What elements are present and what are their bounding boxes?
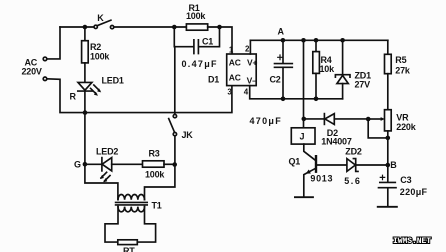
wire JK to R3 node to T1 right — [145, 136, 175, 200]
bridge rectifier D1 — [227, 54, 257, 86]
svg-text:C3: C3 — [400, 175, 411, 185]
zener ZD2 labels — [344, 146, 362, 186]
ground C3 — [378, 206, 397, 208]
transformer T1 core — [116, 202, 148, 205]
resistor RT — [118, 240, 138, 245]
svg-text:0.47μF: 0.47μF — [182, 59, 218, 69]
svg-text:ZD2: ZD2 — [345, 146, 362, 156]
capacitor C1 — [194, 27, 220, 54]
switch JK — [169, 114, 177, 135]
node dot C2 top — [281, 38, 286, 43]
resistor R2 label — [90, 42, 110, 62]
node dot R4 top — [314, 38, 319, 43]
svg-text:5.6: 5.6 — [344, 176, 361, 186]
resistor R3 label — [145, 148, 165, 179]
zener diode ZD1 — [335, 40, 350, 99]
svg-text:T1: T1 — [152, 200, 162, 210]
node dot VR bottom — [386, 136, 391, 141]
wire R1 to bridge pin 1 — [208, 27, 232, 54]
svg-text:J: J — [300, 131, 305, 141]
resistor R1 label — [186, 3, 206, 21]
capacitor C3 — [379, 175, 397, 206]
svg-text:AC: AC — [229, 72, 241, 82]
resistor R1 — [186, 24, 207, 30]
svg-text:LED2: LED2 — [96, 146, 118, 156]
capacitor C3 labels — [400, 175, 428, 197]
svg-text:R: R — [70, 91, 77, 101]
node dot J branch top — [301, 38, 306, 43]
svg-text:220μF: 220μF — [400, 187, 428, 197]
svg-text:10k: 10k — [320, 64, 336, 74]
node dot C2 bottom — [281, 97, 286, 102]
svg-text:27V: 27V — [355, 80, 371, 90]
wire RT to T1 secondary right — [137, 207, 155, 243]
rail node A wire — [250, 39, 387, 41]
svg-text:RT: RT — [123, 246, 135, 252]
wire top rail K to R1 — [114, 26, 187, 28]
svg-text:D1: D1 — [208, 74, 219, 84]
diode D2 — [304, 114, 368, 125]
svg-text:1N4007: 1N4007 — [321, 136, 352, 146]
wire top rail left to switch K — [60, 26, 94, 28]
svg-text:100k: 100k — [186, 11, 206, 21]
transformer T1 secondary — [118, 207, 145, 212]
resistor R4 — [313, 40, 320, 99]
svg-text:Q1: Q1 — [289, 156, 301, 166]
svg-text:IWMS.NET: IWMS.NET — [393, 237, 431, 246]
wire A rail down to D2 and relay J — [303, 40, 305, 128]
wire AC top lead to top rail — [47, 27, 60, 59]
node dot R2 top — [83, 25, 88, 30]
bridge D1 labels — [208, 45, 257, 97]
wire AC bottom lead and lower rail to bridge pin 3 — [47, 79, 232, 113]
wire R3 to JK node — [164, 163, 175, 165]
resistor R2 — [82, 27, 89, 63]
resistor R5 label — [395, 55, 411, 75]
wire LED2 to R3 — [112, 163, 143, 165]
diode D2 label — [321, 128, 352, 147]
node dot VR wiper — [366, 117, 371, 122]
svg-text:C1: C1 — [202, 36, 213, 46]
node dot ZD1 top — [340, 38, 345, 43]
node dot G — [83, 162, 88, 167]
svg-text:G: G — [74, 159, 81, 169]
resistor R3 — [143, 161, 165, 167]
svg-text:R3: R3 — [149, 148, 160, 158]
AC 220V source terminals — [43, 57, 47, 80]
node dot R4 bottom — [314, 97, 319, 102]
AC source label — [22, 57, 42, 76]
wire C1 left branch — [174, 27, 193, 47]
wire R2 to LED1 — [84, 63, 86, 83]
relay J — [291, 128, 315, 144]
wire LED1 to lower rail — [84, 91, 86, 113]
svg-text:VR: VR — [396, 113, 409, 123]
svg-text:JK: JK — [182, 130, 194, 140]
zener ZD1 label — [355, 71, 372, 90]
wire C1 node down to switch JK — [174, 47, 176, 115]
wire G to LED2 — [85, 163, 101, 165]
svg-text:220V: 220V — [22, 66, 42, 76]
svg-text:27k: 27k — [395, 65, 411, 75]
svg-text:V+: V+ — [247, 58, 257, 68]
svg-text:100k: 100k — [90, 51, 110, 61]
svg-text:LED1: LED1 — [102, 75, 124, 85]
svg-text:9013: 9013 — [310, 174, 333, 184]
transistor Q1 — [304, 156, 347, 196]
ground Q1 emitter — [295, 196, 313, 198]
potentiometer VR label — [396, 113, 416, 133]
svg-text:R5: R5 — [395, 55, 406, 65]
svg-text:220k: 220k — [396, 122, 416, 132]
LED1 label — [70, 75, 124, 101]
LED2 — [100, 158, 112, 183]
svg-text:100k: 100k — [145, 169, 165, 179]
wire J to Q1 collector — [304, 144, 316, 161]
svg-text:B: B — [390, 160, 397, 170]
svg-text:3: 3 — [227, 87, 232, 96]
svg-text:A: A — [278, 26, 285, 36]
node dot C1 right — [217, 25, 222, 30]
wire G vertical down to T1 left — [85, 113, 118, 200]
wire bridge pin 4 to V- rail — [250, 86, 343, 99]
transistor Q1 labels — [289, 156, 334, 183]
svg-text:AC: AC — [229, 57, 241, 67]
node dot B — [386, 163, 391, 168]
svg-text:K: K — [97, 13, 104, 23]
svg-text:470μF: 470μF — [250, 116, 283, 126]
svg-text:2: 2 — [245, 45, 250, 54]
node dot D2 left — [302, 117, 307, 122]
svg-text:R2: R2 — [90, 42, 101, 52]
node dot R3 right — [172, 162, 177, 167]
zener diode ZD2 — [347, 159, 388, 172]
switch K — [94, 20, 114, 29]
resistor R4 label — [320, 55, 336, 74]
svg-text:4: 4 — [244, 87, 249, 96]
transformer T1 primary — [118, 194, 145, 199]
LED1 — [78, 82, 101, 95]
node dot lower rail x85 — [83, 110, 88, 115]
node dot C1 left — [172, 25, 177, 30]
capacitor C2 label — [250, 74, 283, 125]
svg-text:C2: C2 — [270, 74, 281, 84]
potentiometer VR — [368, 110, 391, 182]
wire bridge pin 2 to rail A — [249, 40, 251, 54]
resistor R5 — [385, 40, 392, 109]
svg-text:V–: V– — [247, 76, 257, 86]
svg-text:1: 1 — [229, 46, 234, 55]
wire T1 secondary left to RT — [105, 207, 118, 243]
capacitor C2 — [275, 40, 293, 99]
